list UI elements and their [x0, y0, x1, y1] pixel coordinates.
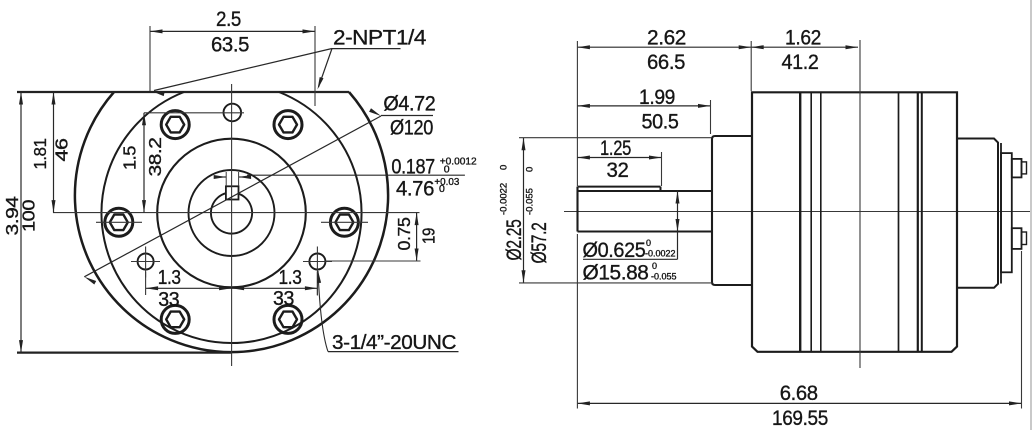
note 3-1/4-20UNC underline [328, 351, 459, 353]
dim 2.62/66.5 line [577, 46, 751, 48]
svg-text:0: 0 [499, 165, 510, 170]
svg-text:169.55: 169.55 [772, 407, 828, 430]
pilot circle (O57.2) [157, 139, 306, 288]
UNC hole left cross [131, 261, 160, 263]
bolt flange circle [102, 92, 362, 343]
dim O57.2 ext bottom [519, 282, 713, 284]
bottom tangent edge / extension line [17, 352, 232, 354]
rear cap [958, 139, 998, 288]
rear port boss top [1012, 159, 1022, 178]
svg-text:Ø2.25: Ø2.25 [503, 220, 526, 261]
body joint line d [898, 92, 900, 352]
svg-text:2.62: 2.62 [647, 27, 686, 50]
flange outer circle (O120) with top flat [75, 92, 388, 352]
svg-text:63.5: 63.5 [211, 34, 249, 57]
hex socket screw bottom-left [161, 305, 189, 333]
pilot boss [712, 136, 752, 285]
rear port boss bottom [1012, 228, 1022, 249]
body joint line c [820, 92, 822, 352]
svg-text:3-1/4”-20UNC: 3-1/4”-20UNC [332, 331, 457, 354]
shaft key [578, 186, 661, 188]
dim 0.75/19 line [416, 213, 418, 261]
key width ext lines [225, 172, 227, 186]
note 3-1/4-20UNC leader [318, 271, 328, 352]
dim 1.25/32 line [577, 157, 661, 159]
shaft outline [576, 187, 578, 232]
svg-text:-0.055: -0.055 [651, 272, 677, 282]
svg-text:1.25: 1.25 [600, 137, 631, 160]
svg-text:0.75: 0.75 [394, 218, 414, 251]
svg-text:19: 19 [419, 228, 439, 244]
svg-text:1.62: 1.62 [785, 27, 821, 50]
ext line key end [661, 152, 663, 186]
svg-text:-0.0022: -0.0022 [499, 183, 510, 215]
diameter leader O4.72/O120 [84, 116, 381, 277]
body joint line f [921, 92, 923, 352]
O4.72 underline [381, 115, 433, 117]
svg-text:-0.055: -0.055 [525, 188, 536, 215]
svg-text:32: 32 [607, 159, 629, 182]
note 2-NPT1/4 leader b [319, 49, 333, 88]
svg-text:100: 100 [19, 199, 39, 232]
dim 1.3/33 ext left [145, 272, 147, 295]
svg-text:0.187: 0.187 [391, 155, 435, 178]
dim 0.75/19 ext line [326, 260, 421, 262]
svg-text:38.2: 38.2 [145, 138, 165, 177]
body centre plane line [859, 40, 861, 368]
dim 1.81/46 line [53, 92, 55, 213]
svg-text:Ø120: Ø120 [390, 117, 433, 140]
rear port boss top nub [1022, 162, 1027, 174]
shaft circle (O15.88) [211, 193, 252, 233]
key slot [226, 186, 239, 199]
svg-text:0: 0 [439, 183, 445, 195]
dim 6.68/169.55 line [577, 402, 1021, 404]
svg-text:0: 0 [525, 167, 536, 172]
svg-text:2-NPT1/4: 2-NPT1/4 [333, 26, 426, 50]
dim O0.625 line [677, 191, 679, 260]
inner boss circle [189, 170, 275, 256]
dim 2.5/63.5 ext lines [149, 26, 151, 91]
svg-text:4.76: 4.76 [396, 177, 434, 200]
svg-text:2.5: 2.5 [216, 8, 241, 31]
front view vertical centreline [231, 84, 233, 366]
ext line overall left [576, 234, 578, 409]
svg-text:-0.0022: -0.0022 [645, 249, 676, 259]
svg-text:46: 46 [52, 139, 72, 162]
svg-text:0: 0 [646, 238, 651, 248]
hex socket screw top-right [274, 111, 302, 139]
ext line shaft end [576, 41, 578, 186]
front view horizontal centreline [53, 212, 420, 214]
rear cap inner face [1000, 143, 1002, 284]
UNC hole right [309, 254, 325, 270]
motor body outline [752, 92, 957, 352]
rear port boss bottom nub [1022, 232, 1027, 245]
dim 1.3/33 left line [146, 287, 232, 289]
svg-text:1.3: 1.3 [158, 267, 181, 289]
svg-text:1.3: 1.3 [279, 267, 302, 289]
hex socket screw top-left [161, 111, 189, 139]
port hole top [224, 104, 242, 122]
key dim leader line [247, 174, 465, 176]
svg-text:Ø4.72: Ø4.72 [383, 92, 435, 115]
svg-text:1.5: 1.5 [120, 146, 140, 170]
dim 3.94/100 line [20, 92, 22, 353]
dim O0.625 underline [583, 258, 678, 260]
svg-text:33: 33 [158, 289, 179, 311]
ext line pilot front [710, 100, 712, 134]
svg-text:1.99: 1.99 [639, 86, 675, 109]
ext line overall right [1021, 251, 1023, 409]
mid-right hex centreline [321, 221, 368, 223]
UNC hole left [138, 254, 154, 270]
right page border [1030, 0, 1032, 430]
svg-text:6.68: 6.68 [780, 382, 818, 405]
note 2-NPT1/4 leader a [154, 49, 332, 91]
hex socket screw mid-right [330, 208, 358, 236]
dim 1.5/38.2 ext line [144, 112, 244, 114]
rear ring [1001, 153, 1012, 272]
dim 1.3/33 right line [232, 287, 318, 289]
dim 1.5/38.2 line [143, 113, 145, 213]
side view horizontal centreline [564, 211, 1030, 213]
hex socket screw mid-left [105, 208, 133, 236]
body joint line e [917, 92, 919, 352]
svg-text:Ø15.88: Ø15.88 [583, 262, 649, 285]
dim 2.5/63.5 line [150, 30, 315, 32]
top flat edge / extension line [17, 91, 349, 93]
key width arrows [214, 175, 227, 179]
note 2-NPT1/4 underline [332, 48, 401, 50]
dim O57.2 ext top [519, 137, 712, 139]
dim 1.62/41.2 line [751, 46, 858, 48]
svg-text:66.5: 66.5 [647, 51, 685, 74]
svg-text:0: 0 [652, 261, 657, 271]
UNC hole right cross [303, 261, 332, 263]
svg-text:33: 33 [273, 288, 294, 310]
dim O2.25/O57.2 line [523, 138, 525, 283]
dim 1.99/50.5 line [577, 105, 710, 107]
svg-text:Ø57.2: Ø57.2 [528, 223, 551, 264]
body joint line a [799, 92, 801, 352]
mid-left hex centreline [96, 221, 142, 223]
svg-text:Ø0.625: Ø0.625 [583, 239, 646, 262]
ext line plate front [750, 41, 752, 91]
svg-text:50.5: 50.5 [642, 111, 679, 134]
svg-text:0: 0 [444, 164, 450, 176]
svg-text:1.81: 1.81 [30, 139, 50, 170]
hex socket screw bottom-right [274, 305, 302, 333]
svg-text:41.2: 41.2 [782, 51, 819, 74]
dim 1.3/33 ext right [316, 272, 318, 295]
body joint line b [810, 92, 812, 352]
